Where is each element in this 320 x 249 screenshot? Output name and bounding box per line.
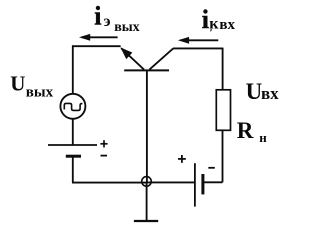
AC source (U вых generator) circle [60,94,85,119]
wire: collector top horizontal [173,47,223,49]
svg-text:н: н [259,130,267,145]
label: U вых [10,72,53,101]
right battery short plate (−) [201,174,204,194]
transistor emitter lead [121,48,144,69]
wire: bottom rail, node to right battery [147,181,195,183]
svg-text:э: э [104,13,111,30]
svg-text:вых: вых [26,85,54,101]
label: + (right battery) [178,155,186,163]
svg-text:R: R [237,118,254,143]
label: − (right battery) [208,167,215,169]
svg-text:i: i [94,2,101,31]
wire: base stem from bar down through node [146,70,148,183]
AC source sine-wave symbol [64,103,82,110]
label: i э вых [94,2,139,35]
transistor base bar [124,69,169,71]
label: R н [237,118,267,145]
wire: AC source to left battery [72,119,74,145]
wire: bottom rail, battery to node [72,182,147,184]
wire: down to resistor top [222,48,224,90]
label: i к вх [202,5,236,34]
wire: emitter to AC source, top-left horizontal [72,45,121,47]
transistor collector lead [149,48,173,69]
resistor Rн body [216,90,230,131]
svg-text:i: i [202,5,209,34]
svg-text:вх: вх [219,17,235,33]
wire: resistor bottom to corner [222,130,224,182]
label: + (left battery) [100,140,107,147]
left battery short plate (−) [66,155,81,158]
svg-text:U: U [10,72,25,96]
wire: node to ground [146,183,148,221]
svg-text:вх: вх [261,84,279,103]
wire: left vertical down to AC source [72,45,74,93]
right battery long plate (+) [194,163,196,206]
transistor emitter arrowhead [120,47,132,59]
left battery long plate (+) [48,144,97,146]
node: junction terminal circle [142,177,152,187]
svg-text:вых: вых [114,20,140,35]
label: U вх [246,79,280,104]
ground bar [134,220,158,222]
current arrow: i э вых (emitter current) [79,34,118,41]
wire: left battery to bottom rail [72,156,74,182]
current arrow: i к вх (collector current) [178,37,218,44]
label: − (left battery) [101,155,108,157]
wire: corner to right battery short plate [203,181,223,183]
